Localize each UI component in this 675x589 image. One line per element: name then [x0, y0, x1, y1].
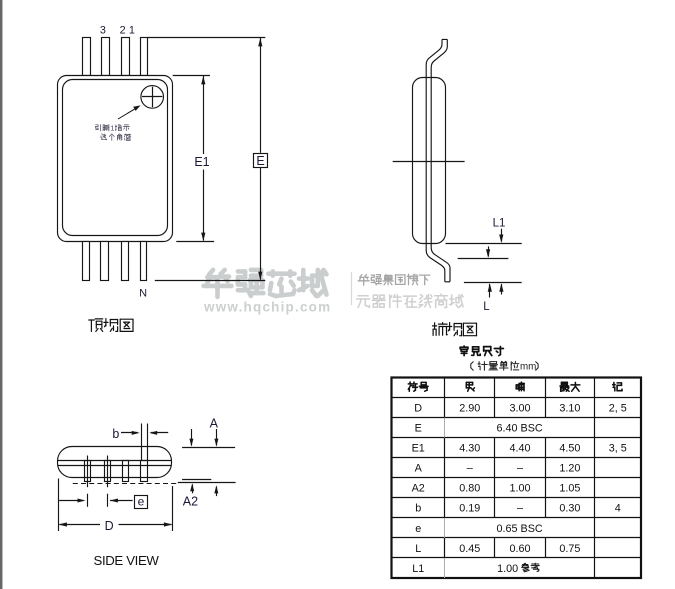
- title 端视图: [433, 323, 448, 336]
- left window border bar: [0, 0, 2, 589]
- extension line package top: [173, 75, 210, 77]
- side view band lines: [58, 460, 172, 462]
- L arrows: [489, 284, 491, 298]
- D dimension line: [60, 524, 101, 526]
- svg-text:0.19: 0.19: [459, 503, 480, 515]
- svg-text:–: –: [517, 463, 523, 475]
- end view center line: [393, 161, 465, 163]
- svg-text:0.45: 0.45: [459, 543, 480, 555]
- svg-text:3.10: 3.10: [559, 403, 580, 415]
- A dimension: [182, 447, 235, 449]
- svg-text:D: D: [414, 403, 422, 415]
- note text 这个角落: [101, 134, 107, 140]
- table subtitle （计量单位mm）: [471, 362, 473, 371]
- svg-text:–: –: [517, 503, 523, 515]
- svg-text:A: A: [415, 463, 423, 475]
- svg-text:A2: A2: [183, 495, 198, 509]
- svg-text:3.00: 3.00: [509, 403, 530, 415]
- pin 1 note arrow: [118, 108, 137, 119]
- extension line package bottom: [176, 241, 214, 243]
- watermark 华强集团旗下: [358, 275, 369, 286]
- top view package outer body: [58, 76, 173, 242]
- svg-text:L: L: [415, 543, 421, 555]
- svg-text:4.50: 4.50: [559, 443, 580, 455]
- b dimension extension lines: [141, 424, 143, 462]
- extension line 3 (lead tip): [464, 282, 522, 284]
- note text 引脚1指示: [96, 125, 101, 131]
- svg-text:L: L: [483, 301, 490, 313]
- top view: top pins: [83, 38, 91, 76]
- svg-text:4.40: 4.40: [509, 443, 530, 455]
- L1 arrow: [501, 229, 503, 242]
- svg-text:2.90: 2.90: [459, 403, 480, 415]
- svg-text:SIDE VIEW: SIDE VIEW: [94, 553, 160, 568]
- e dimension arrows: [59, 500, 83, 502]
- extension line pins bottom: [155, 280, 265, 282]
- svg-text:A: A: [210, 417, 219, 431]
- top view package inner body: [63, 80, 168, 236]
- pin 2 center line: [107, 456, 109, 488]
- svg-text:4: 4: [615, 503, 621, 515]
- svg-text:0.75: 0.75: [559, 543, 580, 555]
- svg-text:D: D: [105, 519, 114, 533]
- D dimension extension lines: [58, 479, 60, 532]
- svg-text:1.00: 1.00: [509, 483, 530, 495]
- svg-text:1.20: 1.20: [559, 463, 580, 475]
- svg-text:2, 5: 2, 5: [609, 403, 627, 415]
- pin 1 indicator circle with plus: [141, 86, 164, 109]
- svg-text:4.30: 4.30: [459, 443, 480, 455]
- svg-text:1.05: 1.05: [559, 483, 580, 495]
- top view: bottom pins: [83, 242, 90, 281]
- side view pins: [85, 461, 91, 482]
- extension line pins top: [148, 37, 266, 39]
- end view bent lead: [426, 39, 450, 281]
- watermark 元器件在线商城: [357, 296, 370, 308]
- pin 1 center line: [87, 456, 89, 488]
- svg-text:E: E: [256, 154, 264, 168]
- svg-text:0.80: 0.80: [459, 483, 480, 495]
- A2 dimension lines: [182, 479, 211, 481]
- svg-text:–: –: [467, 463, 473, 475]
- dimensions table grid: [392, 378, 642, 579]
- arrow between lines: [488, 246, 490, 256]
- end view body: [413, 78, 446, 244]
- svg-text:e: e: [138, 495, 145, 509]
- svg-text:1: 1: [110, 124, 114, 133]
- svg-text:L1: L1: [493, 217, 506, 229]
- svg-text:3, 5: 3, 5: [609, 443, 627, 455]
- svg-text:1: 1: [129, 25, 135, 37]
- svg-text:E1: E1: [412, 443, 425, 455]
- svg-text:3: 3: [100, 25, 106, 37]
- svg-text:L1: L1: [412, 563, 424, 575]
- side view body capsule: [58, 447, 172, 478]
- e box: [135, 496, 148, 509]
- title 顶视图: [89, 319, 103, 332]
- watermark divider: [351, 272, 353, 305]
- lead end extension line 1: [446, 243, 522, 245]
- svg-text:1.00: 1.00: [497, 563, 518, 575]
- svg-text:6.40 BSC: 6.40 BSC: [496, 423, 542, 435]
- dimension E1: [203, 76, 205, 154]
- table title 常见尺寸: [460, 346, 468, 356]
- svg-text:b: b: [415, 503, 421, 515]
- svg-text:e: e: [415, 523, 421, 535]
- svg-text:0.30: 0.30: [559, 503, 580, 515]
- svg-text:N: N: [139, 288, 147, 300]
- svg-text:www.hqchip.com: www.hqchip.com: [203, 300, 331, 315]
- svg-text:0.65 BSC: 0.65 BSC: [496, 523, 542, 535]
- svg-text:E: E: [415, 423, 422, 435]
- svg-text:2: 2: [120, 25, 126, 37]
- extension line 2: [458, 258, 509, 260]
- svg-text:mm: mm: [520, 362, 536, 373]
- watermark logo text 华强芯城: [204, 270, 232, 297]
- svg-text:E1: E1: [194, 155, 209, 169]
- svg-text:0.60: 0.60: [509, 543, 530, 555]
- svg-text:A2: A2: [412, 483, 425, 495]
- table header row: [408, 382, 417, 391]
- seating plane dashed line: [73, 483, 177, 485]
- dimension E: [260, 38, 262, 153]
- svg-text:b: b: [112, 427, 119, 441]
